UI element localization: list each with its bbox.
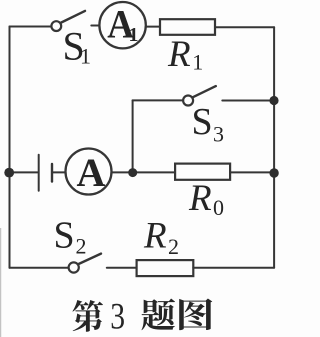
caption: 题	[142, 299, 176, 331]
svg-text:R: R	[143, 215, 167, 256]
label S1	[63, 24, 92, 69]
wire: left rail to battery	[10, 171, 38, 173]
switch S3	[183, 86, 216, 105]
resistor R2	[137, 260, 194, 276]
ammeter A circle	[66, 149, 112, 195]
label S2	[54, 214, 87, 258]
wire left rail	[9, 27, 11, 268]
node: junction S3 / right rail	[269, 96, 278, 105]
wire top: left rail to S1	[10, 26, 52, 28]
resistor R0	[175, 164, 230, 180]
svg-text:1: 1	[129, 24, 139, 46]
switch S1	[51, 11, 85, 31]
svg-text:1: 1	[80, 44, 91, 69]
wire: A to node	[112, 171, 133, 173]
battery cell	[39, 155, 52, 191]
switch S2	[69, 254, 101, 273]
node: junction left rail / battery branch	[4, 168, 14, 178]
svg-text:1: 1	[192, 50, 203, 75]
svg-text:R: R	[188, 178, 212, 219]
op-amp? no: ammeter A1 circle	[99, 2, 145, 48]
wire: battery to ammeter A	[53, 171, 65, 173]
node: junction R0 / right rail	[269, 168, 278, 177]
label R1	[167, 34, 203, 75]
wire: S3 branch vertical stub	[132, 100, 134, 172]
caption: 图	[179, 298, 212, 330]
svg-text:S: S	[54, 214, 75, 256]
label S3	[192, 101, 225, 147]
wire right rail	[273, 27, 275, 268]
svg-text:2: 2	[76, 234, 87, 259]
wire: A1 to R1	[146, 26, 160, 28]
svg-text:0: 0	[213, 195, 224, 220]
wire: R2 to right rail	[193, 267, 274, 269]
wire: stub to S3	[133, 99, 184, 101]
svg-text:A: A	[77, 150, 106, 195]
svg-text:3: 3	[110, 296, 125, 337]
label R2	[143, 215, 179, 259]
caption: 第 (hand-embedded glyph path)	[72, 300, 102, 332]
label A1 (meter face)	[107, 3, 138, 46]
wire: node to R0	[133, 171, 175, 173]
resistor R1	[160, 19, 215, 35]
wire: R0 to right rail	[230, 171, 274, 173]
label R0	[188, 178, 224, 220]
svg-text:2: 2	[168, 234, 179, 259]
svg-text:S: S	[192, 101, 213, 143]
wire: S2 to R2	[107, 267, 137, 269]
wire: bottom left rail to S2	[10, 267, 69, 269]
scan edge artifact (left margin)	[0, 228, 2, 337]
node: junction A / S3 stub	[128, 168, 137, 177]
wire: S1 to ammeter A1	[91, 25, 99, 27]
wire: R1 to right rail	[215, 26, 274, 28]
svg-text:3: 3	[213, 122, 224, 147]
wire: S3 to right rail	[222, 100, 274, 102]
svg-text:R: R	[167, 34, 191, 75]
